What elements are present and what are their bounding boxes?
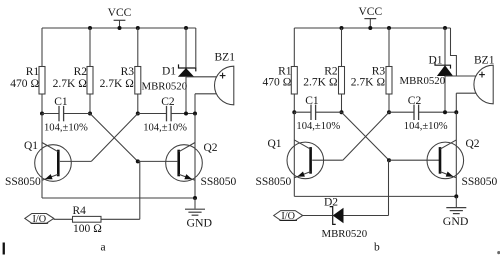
svg-text:C1: C1 xyxy=(54,96,68,108)
svg-text:C2: C2 xyxy=(408,95,422,107)
transistor Q1 base bar xyxy=(57,150,60,177)
svg-text:MBR0520: MBR0520 xyxy=(400,75,446,87)
diode D2 (Schottky, b) xyxy=(333,208,344,223)
svg-text:2.7K Ω: 2.7K Ω xyxy=(53,78,88,90)
transistor Q2 collector line xyxy=(440,140,456,149)
svg-text:R4: R4 xyxy=(73,205,87,217)
wire: top VCC rail (b) xyxy=(294,27,450,29)
wire: R4 left lead to I/O (a) xyxy=(54,218,73,220)
transistor Q2 base bar xyxy=(177,150,180,177)
svg-text:a: a xyxy=(101,242,106,254)
wire: R2 top lead xyxy=(341,28,343,67)
svg-text:R3: R3 xyxy=(121,66,135,78)
wire: R1 bottom lead (b) xyxy=(293,94,295,112)
svg-text:C2: C2 xyxy=(161,96,175,108)
junction dot R3/C2 node (b) xyxy=(387,110,391,114)
svg-text:MBR0520: MBR0520 xyxy=(322,228,368,240)
svg-text:R3: R3 xyxy=(372,65,386,77)
wire: buzzer bottom terminal (b) xyxy=(456,92,476,94)
capacitor C2 plates xyxy=(166,106,168,121)
wire: left column through Q1 down to bottom rail (a) xyxy=(41,114,43,199)
svg-text:MBR0520: MBR0520 xyxy=(142,81,188,93)
wire: cross-couple C1 to Q2 base (b) xyxy=(342,112,390,160)
svg-text:BZ1: BZ1 xyxy=(215,52,236,64)
transistor Q1 emitter line xyxy=(294,172,310,178)
svg-text:104,±10%: 104,±10% xyxy=(296,121,340,132)
svg-text:Q1: Q1 xyxy=(268,138,282,150)
svg-text:R1: R1 xyxy=(26,66,40,78)
resistor R2 xyxy=(87,67,93,95)
svg-text:GND: GND xyxy=(187,216,213,230)
transistor Q1 emitter arrow xyxy=(297,172,305,177)
junction dot rail-R2 (a) xyxy=(88,26,92,30)
svg-text:470 Ω: 470 Ω xyxy=(263,77,292,89)
resistor R4 xyxy=(73,216,102,222)
svg-text:BZ1: BZ1 xyxy=(474,54,495,66)
resistor R2 xyxy=(339,67,345,95)
svg-text:Q1: Q1 xyxy=(24,140,38,152)
wire: C2 left lead xyxy=(138,113,167,115)
wire: D1 node to collector column (a) xyxy=(186,113,195,115)
svg-text:2.7K Ω: 2.7K Ω xyxy=(100,78,135,90)
junction dot rail-D1 (b) xyxy=(443,26,447,30)
wire: C1 left lead xyxy=(42,113,59,115)
svg-text:VCC: VCC xyxy=(108,7,132,19)
svg-text:104,±10%: 104,±10% xyxy=(143,123,187,134)
transistor Q2 collector line xyxy=(179,143,195,152)
wire: R2 bottom lead (b) xyxy=(341,94,343,112)
wire: R1 top lead xyxy=(41,28,43,67)
wire: C2 right lead xyxy=(419,111,445,113)
wire: I/O to D2 (b) xyxy=(303,215,333,217)
diode D1 (Schottky, a) xyxy=(185,28,187,68)
svg-text:Q2: Q2 xyxy=(204,142,218,154)
transistor Q2 base bar xyxy=(439,147,442,174)
wire: R3 top lead xyxy=(388,28,390,67)
I/O port flag xyxy=(25,214,54,224)
wire: C1 left lead xyxy=(294,111,311,113)
wire: Q2 base riser from R4 (a) xyxy=(139,161,141,219)
wire: cross-couple C2 to Q1 base (b) xyxy=(343,112,389,160)
resistor R1 xyxy=(291,67,297,95)
speck artefact bottom-right xyxy=(497,251,500,254)
wire: bottom emitter rail (a) xyxy=(42,197,195,199)
svg-text:D1: D1 xyxy=(162,66,176,78)
junction dot R2/C1 node (b) xyxy=(340,110,344,114)
transistor Q1 base bar xyxy=(309,147,312,174)
capacitor C1 plates xyxy=(310,105,312,120)
wire: left column through Q1 down to bottom rail (b) xyxy=(293,112,295,196)
wire: D1 anode to buzzer top terminal (a) xyxy=(186,76,217,78)
wire: rail end jog down to buzzer supply (b) xyxy=(451,28,457,76)
svg-text:R1: R1 xyxy=(278,65,292,77)
junction dot D1-anode/C2 node (a) xyxy=(184,112,188,116)
junction dot rail-D1 (a) xyxy=(184,26,188,30)
wire: Q2 base lead (b) xyxy=(389,159,440,161)
svg-text:SS8050: SS8050 xyxy=(462,176,498,188)
wire: Q2 base lead (a) xyxy=(138,160,178,162)
wire: R1 top lead xyxy=(293,28,295,67)
text cursor artefact xyxy=(3,243,5,255)
transistor Q2 circle xyxy=(166,145,203,182)
wire: D1 node to collector column (b) xyxy=(445,111,456,113)
buzzer BZ1 body xyxy=(474,65,493,104)
svg-text:R2: R2 xyxy=(74,66,88,78)
transistor Q2 emitter arrow xyxy=(184,174,192,179)
svg-text:470 Ω: 470 Ω xyxy=(10,78,39,90)
svg-text:SS8050: SS8050 xyxy=(201,176,237,188)
junction dot Q2 base node (a) xyxy=(136,159,140,163)
wire: buzzer bottom terminal (a) xyxy=(195,93,217,95)
wire: D1 anode to buzzer top terminal (b) xyxy=(445,75,476,77)
buzzer BZ1 body xyxy=(215,66,234,105)
svg-text:b: b xyxy=(374,241,380,253)
wire: R1 bottom lead (a) xyxy=(41,94,43,114)
transistor Q2 circle xyxy=(427,142,464,179)
svg-text:D2: D2 xyxy=(324,196,338,208)
resistor R3 xyxy=(386,67,392,95)
wire: top VCC rail (a) xyxy=(42,27,196,29)
junction dot emitter/GND (a) xyxy=(193,196,197,200)
wire: right column through Q2 down to bottom rail (b) xyxy=(455,112,457,196)
transistor Q1 circle xyxy=(35,145,72,182)
wire: Q1 base lead (b) xyxy=(312,159,343,161)
junction dot emitter/GND (b) xyxy=(454,194,458,198)
capacitor C1 plates xyxy=(58,106,60,121)
ground symbol xyxy=(455,196,457,207)
svg-text:R2: R2 xyxy=(324,65,338,77)
diode D1 (Schottky, b) xyxy=(444,28,446,65)
transistor Q1 circle xyxy=(287,142,324,179)
svg-text:2.7K Ω: 2.7K Ω xyxy=(351,77,386,89)
wire: R3 top lead xyxy=(137,28,139,67)
wire: R3 bottom lead (b) xyxy=(388,94,390,112)
wire: R4 right lead (a) xyxy=(101,218,140,220)
junction dot rail-R2 (b) xyxy=(340,26,344,30)
svg-text:D1: D1 xyxy=(429,54,443,66)
junction dot R2/C1 node (a) xyxy=(88,112,92,116)
wire: rail end down to cathode (a) xyxy=(195,28,197,68)
junction dot VCC xyxy=(368,26,372,30)
transistor Q2 emitter arrow xyxy=(446,172,454,177)
wire: cross-couple C2 to Q1 base (a) xyxy=(91,114,138,162)
svg-text:GND: GND xyxy=(443,214,469,228)
svg-text:104,±10%: 104,±10% xyxy=(44,123,88,134)
junction dot buzzer/collector node (a) xyxy=(193,112,197,116)
svg-text:100 Ω: 100 Ω xyxy=(73,223,102,235)
wire: R3 bottom lead (a) xyxy=(137,94,139,114)
junction dot rail-R3 (a) xyxy=(136,26,140,30)
wire: C2 left lead xyxy=(389,111,414,113)
svg-text:Q2: Q2 xyxy=(466,138,480,150)
wire: buzzer bottom down to node (a) xyxy=(194,94,196,114)
svg-text:VCC: VCC xyxy=(358,6,382,18)
resistor R3 xyxy=(135,67,141,95)
junction dot R1/C1/Q1-collector node (b) xyxy=(292,110,296,114)
wire: D2 cathode-side riser lead (b) xyxy=(344,215,389,217)
wire: Q1 base lead (a) xyxy=(60,160,91,162)
transistor Q2 emitter line xyxy=(440,172,456,178)
junction dot R3/C2 node (a) xyxy=(136,112,140,116)
wire: C1 right lead xyxy=(316,111,342,113)
transistor Q2 emitter line xyxy=(179,174,195,180)
wire: bottom emitter rail (b) xyxy=(294,195,456,197)
capacitor C2 plates xyxy=(413,105,415,120)
junction dot VCC xyxy=(118,26,122,30)
ground symbol xyxy=(194,198,196,209)
transistor Q1 collector line xyxy=(294,140,310,149)
svg-text:104,±10%: 104,±10% xyxy=(404,121,448,132)
resistor R1 xyxy=(39,67,45,95)
transistor Q1 emitter arrow xyxy=(45,174,53,179)
svg-text:C1: C1 xyxy=(305,95,319,107)
wire: C2 right lead xyxy=(171,113,186,115)
junction dot R1/C1/Q1-collector node (a) xyxy=(40,112,44,116)
transistor Q1 emitter line xyxy=(42,174,58,180)
junction dot D1-anode/C2 node (b) xyxy=(443,110,447,114)
wire: buzzer bottom down to node (b) xyxy=(455,93,457,112)
wire: R2 bottom lead (a) xyxy=(89,94,91,114)
wire: right column through Q2 down to bottom rail (a) xyxy=(194,114,196,199)
transistor Q1 collector line xyxy=(42,143,58,152)
wire: R2 top lead xyxy=(89,28,91,67)
svg-text:2.7K Ω: 2.7K Ω xyxy=(303,77,338,89)
junction dot rail-R3 (b) xyxy=(387,26,391,30)
wire: cross-couple C1 to Q2 base (a) xyxy=(90,114,138,162)
wire: Q2 base riser from D2 (b) xyxy=(388,160,390,215)
I/O port flag xyxy=(274,211,303,221)
junction dot Q2 base node (b) xyxy=(387,158,391,162)
svg-text:SS8050: SS8050 xyxy=(256,176,292,188)
wire: C1 right lead xyxy=(64,113,90,115)
junction dot buzzer/collector node (b) xyxy=(454,110,458,114)
buzzer BZ1 plus mark xyxy=(220,75,226,77)
buzzer BZ1 plus mark xyxy=(479,74,485,76)
svg-text:SS8050: SS8050 xyxy=(5,176,41,188)
